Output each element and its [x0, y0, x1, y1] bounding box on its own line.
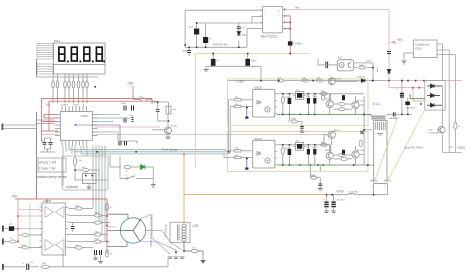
- svg-text:BC547: BC547: [325, 99, 332, 101]
- transistor Q d3: [328, 131, 335, 138]
- resistor R vertical pair + trimmer: [156, 110, 160, 112]
- svg-text:DIS1: DIS1: [54, 39, 60, 43]
- connector X-in2: [2, 239, 4, 245]
- capacitor C 4u7 vert: [187, 51, 191, 53]
- capacitor C filter 1: [211, 59, 216, 66]
- wire secondary rail: [206, 54, 261, 81]
- svg-text:opto?: opto?: [366, 60, 372, 63]
- resistor R out2: [94, 214, 101, 217]
- capacitor C 22u ch2: [307, 149, 310, 155]
- node Cellphone PSU box: [414, 40, 438, 58]
- resistor R out3: [94, 221, 101, 224]
- wire ch1 vcc rail: [277, 93, 330, 95]
- capacitor C 4n7: [194, 29, 199, 35]
- capacitor C mid: [71, 226, 75, 228]
- transistor Q BC547 fb: [328, 78, 335, 85]
- resistor R in ch2 a: [234, 150, 241, 152]
- wire green rail ch1: [277, 113, 371, 115]
- capacitor C pair below: [95, 250, 102, 255]
- svg-text:Pole falling: Pole falling: [162, 148, 177, 152]
- wire light green diagonals: [372, 110, 425, 188]
- wire psu left to ground: [404, 52, 414, 54]
- svg-text:470: 470: [183, 50, 188, 53]
- capacitor C on pink line: [387, 52, 391, 54]
- svg-text:(less PC PSU): (less PC PSU): [404, 146, 423, 150]
- node blue link ch1: [246, 108, 248, 117]
- capacitor C 24V a: [326, 195, 328, 202]
- op-amp A (triangle TL): [45, 207, 54, 218]
- diode D r1: [427, 84, 443, 88]
- node khaki frame channel2: [227, 131, 368, 171]
- resistor R out vertical: [454, 122, 457, 129]
- svg-text:LFuse = 94: LFuse = 94: [39, 167, 55, 171]
- svg-text:+5V: +5V: [397, 38, 404, 42]
- diode D on pink line: [387, 70, 391, 74]
- capacitor C drv3: [361, 131, 363, 135]
- svg-text:100u: 100u: [251, 60, 257, 63]
- svg-text:BD437: BD437: [325, 150, 332, 152]
- resistor R bottom long wire: [41, 265, 49, 268]
- resistor R in ch2 b: [234, 156, 241, 158]
- resistor R out4: [75, 246, 82, 249]
- resistor R in ch1 b: [234, 105, 241, 107]
- svg-text:5:1:1: 5:1:1: [373, 102, 381, 106]
- svg-text:35p 400V: 35p 400V: [406, 108, 416, 110]
- diode D1: [237, 32, 241, 36]
- capacitor C 22u ch1: [307, 98, 310, 104]
- wire +5V red box around MCU: [42, 99, 157, 143]
- wire +24V rail: [327, 194, 349, 196]
- connector SV1 (display header): [37, 44, 53, 75]
- capacitor C-xtal pair: [43, 143, 53, 145]
- resistor R 100R ch1: [288, 114, 290, 121]
- wire orange +24V feed: [184, 154, 332, 225]
- resistor R 100k: [22, 246, 28, 249]
- wire pink +5V feed: [286, 10, 389, 81]
- wire psu outputs: [437, 44, 455, 153]
- svg-text:BD137: BD137: [357, 101, 364, 103]
- op-amp U2 mega8 MCU QFP: [55, 106, 98, 146]
- svg-text:4k99: 4k99: [311, 175, 317, 177]
- resistor R 1k bottom (near motor): [105, 250, 108, 257]
- capacitor C 100n ch1: [313, 98, 316, 104]
- svg-text:BD137: BD137: [334, 130, 341, 132]
- resistor R snubber dark: [405, 102, 410, 106]
- wire bundle bend into ch2: [225, 150, 227, 151]
- svg-text:L=400u: L=400u: [294, 43, 303, 46]
- svg-text:10R: 10R: [42, 263, 46, 265]
- diode D r2: [427, 94, 440, 98]
- transistor Q IGBT: [437, 126, 445, 133]
- transistor Q BC547: [165, 127, 172, 134]
- svg-text:4k99: 4k99: [291, 119, 297, 121]
- svg-text:BD138: BD138: [357, 150, 364, 152]
- op-amp U5 LM339: [42, 203, 66, 255]
- resistor R 100R ch2: [309, 165, 311, 178]
- connector X-in1: [2, 226, 4, 232]
- svg-text:m168: m168: [80, 114, 88, 118]
- resistor R opto: [359, 66, 366, 69]
- svg-text:del: del: [296, 90, 299, 92]
- wire motor leads: [107, 214, 128, 246]
- inductor L 24V: [349, 193, 357, 194]
- capacitor C pol ch1: [288, 98, 292, 104]
- capacitor C 100p ch1: [300, 127, 304, 129]
- resistor R 10k sense: [73, 158, 76, 166]
- transistor sensor NTC box: [83, 174, 97, 184]
- svg-text:+5V: +5V: [127, 82, 134, 86]
- capacitor C decoupling right of MCU: [119, 106, 134, 146]
- transistor Q BD138 d2: [352, 101, 359, 108]
- transistor Q d5: [352, 151, 359, 158]
- capacitor C drv1: [342, 95, 345, 100]
- resistor R 1k mid: [22, 234, 28, 237]
- capacitor C 24V b: [333, 195, 335, 202]
- svg-text:740x: 740x: [295, 7, 301, 10]
- svg-text:4n?: 4n?: [338, 56, 343, 59]
- svg-text:4n7: 4n7: [189, 26, 194, 29]
- svg-text:1N4148: 1N4148: [357, 77, 365, 79]
- resistor R 1k top (near motor): [105, 203, 108, 210]
- op-amp U driver chip ch1: [296, 92, 304, 100]
- svg-text:u? 400V: u? 400V: [390, 118, 399, 120]
- resistor R sense2: [82, 169, 88, 172]
- resistor R fb2: [302, 79, 308, 82]
- wire red Viper drain: [286, 16, 290, 54]
- svg-text:RRR: RRR: [359, 65, 364, 67]
- diode D r3: [427, 103, 443, 107]
- node khaki frame channel1: [227, 79, 368, 125]
- capacitor C 100p ch2: [319, 184, 323, 186]
- svg-text:+16V: +16V: [236, 79, 245, 83]
- svg-text:PSU: PSU: [415, 47, 421, 51]
- inductor TR2 12R pot-core: [170, 222, 190, 242]
- wire blue nets: [76, 125, 138, 144]
- svg-text:100n: 100n: [121, 103, 127, 105]
- svg-text:BC547: BC547: [171, 126, 178, 128]
- resistor R 5R1 ch1: [321, 92, 328, 95]
- resistor R 470R ch2: [281, 148, 284, 155]
- transistor Q d4: [326, 152, 333, 159]
- wire driver verticals: [324, 94, 374, 165]
- inductor L 400u: [288, 41, 293, 45]
- wire pink drops to diode box: [389, 81, 425, 101]
- diode LED1 green: [109, 155, 111, 167]
- capacitor C 100p: [237, 27, 241, 29]
- svg-text:12R: 12R: [193, 224, 200, 228]
- wire +5V down: [132, 86, 134, 99]
- capacitor C 100n ch2: [313, 149, 316, 155]
- wire opto outputs: [354, 63, 378, 78]
- wire motor spokes: [120, 218, 141, 241]
- node HFuse box: [38, 158, 66, 172]
- svg-text:~220V: ~220V: [456, 146, 466, 150]
- resistor R 5R1 ch2: [321, 143, 328, 146]
- connector X left edge: [2, 124, 4, 131]
- wire +16V rail: [228, 80, 277, 82]
- capacitor C pol ch2: [288, 149, 292, 155]
- wire ch2 vcc rail: [277, 144, 330, 146]
- capacitor C coupling on rail: [393, 112, 395, 116]
- svg-text:47u 35V: 47u 35V: [337, 200, 346, 202]
- svg-text:+24V: +24V: [336, 190, 345, 194]
- wire gray bus MCU bottom: [63, 100, 230, 242]
- resistor R 470R ch1: [281, 97, 284, 104]
- wire pink inputs: [18, 210, 42, 229]
- node blue link ch2: [246, 159, 248, 168]
- wire coil bottom to R: [183, 241, 185, 251]
- resistor R in ch1 a: [234, 99, 241, 101]
- svg-text:1N?: 1N?: [242, 34, 247, 37]
- ground triple below crossing: [168, 257, 185, 259]
- resistor R out 10k: [75, 207, 82, 210]
- svg-text:optional: optional: [66, 185, 78, 189]
- op-amp C (triangle BL): [45, 240, 54, 251]
- wire light green vertical: [29, 203, 31, 250]
- resistor R drv3 vertical: [321, 94, 324, 100]
- resistor R in2: [10, 240, 16, 243]
- motor M1 HDD (circle): [120, 218, 145, 243]
- ground below switch: [152, 178, 154, 184]
- svg-text:UH7300E: UH7300E: [429, 132, 439, 134]
- khaki frame top: [195, 54, 310, 169]
- resistor R out6: [94, 240, 101, 243]
- resistor R 10k top: [140, 98, 147, 101]
- display LCD1 box: [54, 43, 106, 74]
- capacitor C filter 2: [245, 59, 250, 66]
- digit 8. x4 (seven segment): [59, 47, 102, 61]
- svg-text:1R: 1R: [192, 248, 195, 250]
- svg-text:del: del: [296, 141, 299, 143]
- transistor Q BD137 d1: [326, 100, 333, 107]
- svg-text:BC547: BC547: [335, 78, 342, 80]
- wire transformer secondary pins: [371, 180, 391, 195]
- node optional box: [62, 156, 108, 190]
- capacitor C series input: [326, 62, 328, 69]
- resistor R 1R: [191, 249, 198, 252]
- wire green feed to rectifier: [410, 98, 425, 100]
- ground under 1R: [202, 256, 204, 261]
- wire black verticals right: [443, 86, 463, 153]
- svg-text:10uH 3A: 10uH 3A: [349, 191, 358, 194]
- transformer TR1 primary hatch: [371, 116, 386, 119]
- resistor R drv2: [341, 157, 347, 160]
- svg-text:LM339: LM339: [43, 199, 51, 203]
- svg-text:470k 4u7 1W: 470k 4u7 1W: [213, 44, 228, 47]
- svg-text:HFuse = D9: HFuse = D9: [39, 161, 56, 165]
- op-amp U driver chip ch2: [296, 143, 304, 151]
- wire primary top: [185, 10, 263, 47]
- svg-text:+5V: +5V: [11, 195, 18, 199]
- capacitor C electrolytic: [203, 37, 208, 43]
- resistor R drv4 vertical: [359, 140, 362, 146]
- wire display bus: [37, 59, 99, 78]
- resistor R fb1: [316, 79, 322, 82]
- capacitor C+ bottom: [27, 264, 29, 270]
- wire fb links: [335, 78, 373, 81]
- diode D box (rectifier): [425, 80, 445, 110]
- wire red +5V rail: [15, 199, 107, 254]
- capacitor C in dark: [9, 226, 14, 231]
- capacitor C snubber: [401, 81, 403, 93]
- wire motor to coil (crossing): [140, 214, 176, 255]
- op-amp B (triangle TR): [56, 207, 65, 218]
- resistor R out5: [94, 233, 101, 236]
- svg-text:Viper*2(22): Viper*2(22): [261, 35, 277, 39]
- transformer TR1 body: [374, 121, 387, 184]
- wire green rail ch2: [277, 164, 368, 166]
- wire pink MCU nets: [42, 127, 331, 135]
- connector X bottom left: [2, 264, 4, 270]
- op-amp U3 Viper22: [263, 6, 283, 33]
- capacitor C drv2: [342, 150, 345, 155]
- op-amp D (triangle BR): [56, 240, 65, 251]
- switch S1: [136, 177, 153, 179]
- resistor R drv1: [339, 108, 345, 111]
- resistor array R-display (8 vertical resistors): [52, 78, 89, 103]
- svg-text:100 5kx: 100 5kx: [108, 227, 117, 229]
- diode D 1N4148: [361, 79, 365, 83]
